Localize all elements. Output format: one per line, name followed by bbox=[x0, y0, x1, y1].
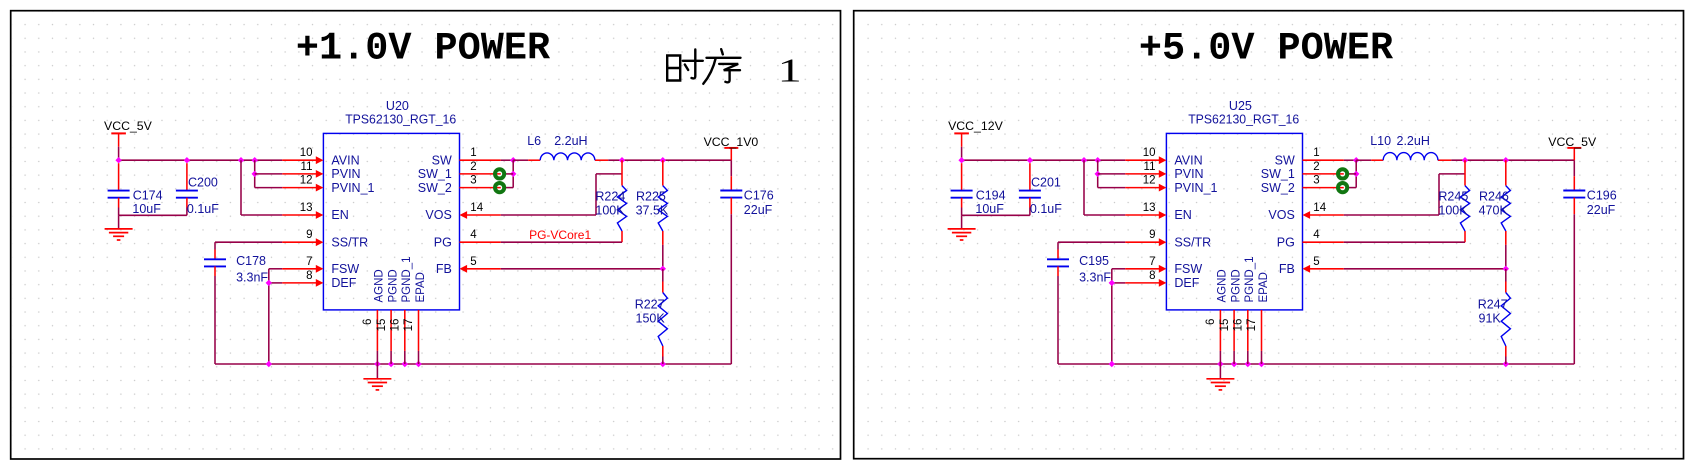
capacitor C194 10uF bbox=[961, 163, 963, 190]
junction bbox=[1353, 157, 1359, 163]
svg-text:16: 16 bbox=[1233, 319, 1245, 332]
svg-text:22uF: 22uF bbox=[1587, 203, 1616, 217]
svg-text:VOS: VOS bbox=[1268, 208, 1294, 222]
wire bbox=[118, 147, 120, 160]
junction bbox=[1095, 157, 1101, 163]
svg-text:8: 8 bbox=[306, 270, 312, 282]
short-to-net symbol (green rings) on SW_1 bbox=[495, 169, 504, 178]
resistor R247 91K pins bbox=[1505, 269, 1507, 364]
wire bbox=[269, 282, 283, 284]
svg-text:12: 12 bbox=[300, 175, 313, 187]
pin 15 PGND bbox=[390, 310, 392, 364]
wire bbox=[608, 159, 731, 161]
svg-text:1: 1 bbox=[470, 147, 476, 159]
svg-text:7: 7 bbox=[306, 256, 312, 268]
svg-text:SW_2: SW_2 bbox=[1261, 181, 1295, 195]
svg-text:100K: 100K bbox=[1438, 203, 1468, 217]
svg-text:C200: C200 bbox=[188, 176, 218, 190]
junction bbox=[238, 157, 244, 163]
svg-text:10uF: 10uF bbox=[132, 202, 161, 216]
resistor R227 150K pins bbox=[662, 269, 664, 364]
svg-text:+1.0V POWER: +1.0V POWER bbox=[296, 27, 551, 71]
svg-text:2: 2 bbox=[470, 161, 476, 173]
resistor R246 470K pins bbox=[1505, 160, 1507, 269]
junction bbox=[619, 157, 625, 163]
svg-text:SW_1: SW_1 bbox=[418, 167, 452, 181]
resistor R225 37.5K pins bbox=[662, 160, 664, 269]
svg-text:AGND: AGND bbox=[1217, 269, 1229, 302]
pin 5 FB bbox=[460, 265, 501, 273]
svg-text:R247: R247 bbox=[1478, 298, 1508, 312]
capacitor C200 plates bbox=[176, 191, 198, 198]
junction bbox=[115, 157, 121, 163]
pin 13 EN bbox=[1125, 211, 1166, 219]
wire bbox=[118, 215, 120, 228]
svg-text:4: 4 bbox=[470, 229, 477, 241]
svg-text:PGND: PGND bbox=[1230, 269, 1242, 302]
wire bbox=[1111, 269, 1113, 364]
capacitor C176 22uF bbox=[730, 176, 732, 190]
svg-text:7: 7 bbox=[1149, 256, 1155, 268]
svg-text:1: 1 bbox=[778, 52, 802, 89]
capacitor C178 3.3nF bbox=[214, 242, 216, 249]
wire bbox=[1451, 159, 1574, 161]
svg-text:SW: SW bbox=[1275, 153, 1295, 167]
svg-text:11: 11 bbox=[301, 161, 313, 173]
svg-text:U25: U25 bbox=[1229, 99, 1252, 113]
junction bbox=[660, 266, 666, 272]
pin 14 VOS bbox=[1303, 211, 1344, 219]
wire bbox=[513, 159, 528, 161]
svg-text:15: 15 bbox=[1219, 319, 1231, 332]
wire bbox=[1058, 241, 1125, 243]
wire bbox=[961, 215, 963, 228]
junction bbox=[1462, 157, 1468, 163]
pin 13 EN bbox=[282, 211, 323, 219]
junction bbox=[1027, 157, 1033, 163]
svg-text:+5.0V POWER: +5.0V POWER bbox=[1139, 27, 1394, 71]
capacitor C196 plates bbox=[1563, 191, 1585, 198]
wire bbox=[501, 214, 596, 216]
wire bbox=[961, 147, 963, 160]
svg-text:14: 14 bbox=[1313, 202, 1326, 214]
resistor R224 100K pins bbox=[621, 160, 623, 242]
wire bbox=[1438, 174, 1440, 215]
junction bbox=[1245, 361, 1251, 367]
svg-text:C195: C195 bbox=[1079, 254, 1109, 268]
wire bbox=[118, 198, 120, 208]
op-amp U20 TPS62130_RGT_16 body bbox=[323, 133, 459, 310]
svg-text:PVIN: PVIN bbox=[1174, 167, 1203, 181]
junction bbox=[415, 361, 421, 367]
svg-text:C201: C201 bbox=[1031, 176, 1061, 190]
junction bbox=[1081, 157, 1087, 163]
junction bbox=[266, 280, 272, 286]
sheet frame (right page) bbox=[854, 11, 1684, 459]
svg-text:4: 4 bbox=[1313, 229, 1320, 241]
junction bbox=[252, 157, 258, 163]
svg-text:VCC_1V0: VCC_1V0 bbox=[704, 135, 759, 149]
svg-text:22uF: 22uF bbox=[744, 203, 773, 217]
svg-text:DEF: DEF bbox=[1174, 276, 1199, 290]
pin 1 SW bbox=[460, 159, 501, 161]
svg-text:0.1uF: 0.1uF bbox=[187, 202, 219, 216]
svg-text:EPAD: EPAD bbox=[415, 272, 427, 302]
svg-text:12: 12 bbox=[1143, 175, 1156, 187]
svg-text:3: 3 bbox=[1313, 175, 1319, 187]
pin 7 FSW bbox=[282, 265, 323, 273]
svg-text:AGND: AGND bbox=[374, 269, 386, 302]
resistor R225 body bbox=[658, 186, 667, 231]
svg-text:2.2uH: 2.2uH bbox=[1397, 134, 1430, 148]
junction bbox=[1258, 361, 1264, 367]
capacitor C195 plates bbox=[1047, 259, 1069, 266]
junction bbox=[958, 157, 964, 163]
svg-text:FB: FB bbox=[1279, 262, 1295, 276]
svg-text:VCC_5V: VCC_5V bbox=[1548, 135, 1597, 149]
pin 2 SW_1 bbox=[1303, 173, 1344, 175]
wire bbox=[1344, 159, 1356, 161]
wire bbox=[596, 173, 622, 175]
pin 9 SS/TR bbox=[282, 238, 323, 246]
wire bbox=[119, 214, 187, 216]
junction bbox=[1095, 171, 1101, 177]
wire bbox=[1029, 198, 1031, 208]
pin 14 VOS bbox=[460, 211, 501, 219]
capacitor C178 plates bbox=[204, 259, 226, 266]
svg-text:SS/TR: SS/TR bbox=[331, 235, 368, 249]
capacitor C174 plates bbox=[108, 191, 130, 198]
svg-text:470K: 470K bbox=[1479, 203, 1509, 217]
pin 3 SW_2 bbox=[460, 187, 501, 189]
wire bbox=[1355, 160, 1357, 187]
svg-text:FSW: FSW bbox=[331, 262, 359, 276]
svg-text:TPS62130_RGT_16: TPS62130_RGT_16 bbox=[345, 113, 456, 127]
junction bbox=[510, 157, 516, 163]
capacitor C201 plates bbox=[1019, 191, 1041, 198]
capacitor C195 3.3nF bbox=[1057, 242, 1059, 249]
svg-text:PVIN_1: PVIN_1 bbox=[331, 181, 374, 195]
junction bbox=[1503, 266, 1509, 272]
wire bbox=[1112, 268, 1126, 270]
svg-text:VCC_12V: VCC_12V bbox=[948, 119, 1003, 133]
power symbol VCC_5V bbox=[1567, 147, 1581, 149]
pin 16 PGND_1 bbox=[1247, 310, 1249, 364]
junction bbox=[1217, 361, 1223, 367]
junction bbox=[374, 361, 380, 367]
svg-text:SW_2: SW_2 bbox=[418, 181, 452, 195]
svg-text:EN: EN bbox=[331, 208, 348, 222]
capacitor C176 plates bbox=[720, 191, 742, 198]
wire bbox=[268, 269, 270, 364]
wire bbox=[512, 160, 514, 187]
svg-text:PGND: PGND bbox=[387, 269, 399, 302]
resistor R245 body bbox=[1460, 186, 1469, 231]
svg-text:9: 9 bbox=[1149, 229, 1155, 241]
inductor L6 body bbox=[540, 153, 595, 160]
svg-text:3: 3 bbox=[470, 175, 476, 187]
junction bbox=[1231, 361, 1237, 367]
svg-text:1: 1 bbox=[1313, 147, 1319, 159]
wire bbox=[1344, 214, 1439, 216]
wire bbox=[240, 160, 242, 215]
inductor L6 2.2uH pins bbox=[528, 159, 608, 161]
ground bbox=[105, 229, 133, 240]
svg-text:8: 8 bbox=[1149, 270, 1155, 282]
wire bbox=[1097, 160, 1099, 187]
pin 10 AVIN bbox=[282, 156, 323, 164]
wire bbox=[501, 159, 513, 161]
junction bbox=[1353, 171, 1359, 177]
wire bbox=[376, 364, 378, 379]
pin 4 PG bbox=[1303, 241, 1344, 243]
svg-text:150K: 150K bbox=[636, 311, 666, 325]
wire bbox=[1058, 363, 1574, 365]
svg-text:EN: EN bbox=[1174, 208, 1191, 222]
wire bbox=[269, 268, 283, 270]
svg-text:PG-VCore1: PG-VCore1 bbox=[529, 228, 591, 242]
pin 11 PVIN bbox=[1125, 170, 1166, 178]
resistor R224 body bbox=[617, 186, 626, 231]
ground bbox=[948, 229, 976, 240]
svg-text:PGND_1: PGND_1 bbox=[1244, 256, 1256, 302]
wire bbox=[1344, 268, 1506, 270]
wire bbox=[1573, 160, 1575, 176]
svg-text:R224: R224 bbox=[595, 189, 625, 203]
wire bbox=[255, 173, 283, 175]
svg-text:TPS62130_RGT_16: TPS62130_RGT_16 bbox=[1188, 113, 1299, 127]
pin 4 PG bbox=[460, 241, 501, 243]
svg-text:PG: PG bbox=[1277, 235, 1295, 249]
svg-text:37.5K: 37.5K bbox=[636, 203, 669, 217]
wire bbox=[961, 198, 963, 208]
resistor R227 body bbox=[658, 293, 667, 347]
junction bbox=[1503, 361, 1509, 367]
svg-text:R246: R246 bbox=[1479, 189, 1509, 203]
svg-text:13: 13 bbox=[300, 202, 313, 214]
wire bbox=[730, 160, 732, 176]
svg-text:DEF: DEF bbox=[331, 276, 356, 290]
svg-text:R225: R225 bbox=[636, 189, 666, 203]
svg-text:FSW: FSW bbox=[1174, 262, 1202, 276]
wire bbox=[119, 159, 283, 161]
wire bbox=[1344, 241, 1465, 243]
svg-text:11: 11 bbox=[1144, 161, 1156, 173]
svg-text:3.3nF: 3.3nF bbox=[236, 270, 268, 284]
svg-text:100K: 100K bbox=[595, 203, 625, 217]
pin 17 EPAD bbox=[418, 310, 420, 364]
inductor L10 body bbox=[1383, 153, 1438, 161]
power symbol VCC_1V0 bbox=[724, 147, 738, 149]
svg-text:EPAD: EPAD bbox=[1258, 272, 1270, 302]
svg-text:FB: FB bbox=[436, 262, 452, 276]
pin 17 EPAD bbox=[1261, 310, 1263, 364]
wire bbox=[1347, 173, 1357, 175]
svg-text:C194: C194 bbox=[976, 189, 1006, 203]
svg-text:13: 13 bbox=[1143, 202, 1156, 214]
wire bbox=[255, 187, 283, 189]
wire bbox=[1573, 198, 1575, 215]
wire bbox=[962, 159, 1126, 161]
svg-text:14: 14 bbox=[470, 202, 483, 214]
svg-text:PG: PG bbox=[434, 235, 452, 249]
svg-text:17: 17 bbox=[403, 319, 415, 332]
pin 5 FB bbox=[1303, 265, 1344, 273]
short-to-net symbol (green rings) on SW_2 bbox=[1338, 183, 1347, 192]
svg-text:PGND_1: PGND_1 bbox=[401, 256, 413, 302]
junction bbox=[660, 157, 666, 163]
wire bbox=[504, 173, 514, 175]
svg-text:L6: L6 bbox=[527, 134, 541, 148]
svg-text:17: 17 bbox=[1246, 319, 1258, 332]
pin 12 PVIN_1 bbox=[1125, 184, 1166, 192]
junction bbox=[1109, 361, 1115, 367]
junction bbox=[252, 171, 258, 177]
junction bbox=[1109, 280, 1115, 286]
wire bbox=[1057, 266, 1059, 276]
wire bbox=[214, 266, 216, 276]
wire bbox=[1347, 187, 1357, 189]
wire bbox=[730, 148, 732, 160]
svg-text:AVIN: AVIN bbox=[1174, 153, 1202, 167]
junction bbox=[402, 361, 408, 367]
wire bbox=[1098, 173, 1126, 175]
junction bbox=[266, 361, 272, 367]
short-to-net symbol (green rings) on SW_2 bbox=[495, 183, 504, 192]
svg-text:SW_1: SW_1 bbox=[1261, 167, 1295, 181]
pin 16 PGND_1 bbox=[404, 310, 406, 364]
pin 9 SS/TR bbox=[1125, 238, 1166, 246]
svg-text:VOS: VOS bbox=[425, 208, 451, 222]
svg-text:SS/TR: SS/TR bbox=[1174, 235, 1211, 249]
wire bbox=[215, 363, 731, 365]
wire bbox=[1084, 214, 1125, 216]
ground bbox=[1206, 379, 1234, 390]
pin 10 AVIN bbox=[1125, 156, 1166, 164]
svg-text:C176: C176 bbox=[744, 188, 774, 202]
svg-text:U20: U20 bbox=[386, 99, 409, 113]
junction bbox=[660, 361, 666, 367]
svg-text:6: 6 bbox=[362, 319, 374, 325]
svg-text:VCC_5V: VCC_5V bbox=[104, 119, 153, 133]
svg-text:10uF: 10uF bbox=[975, 202, 1004, 216]
svg-text:PVIN: PVIN bbox=[331, 167, 360, 181]
pin 12 PVIN_1 bbox=[282, 184, 323, 192]
svg-text:R245: R245 bbox=[1438, 189, 1468, 203]
svg-text:15: 15 bbox=[376, 319, 388, 332]
resistor R247 body bbox=[1501, 293, 1510, 347]
wire bbox=[1219, 364, 1221, 379]
wire bbox=[501, 241, 622, 243]
svg-text:PVIN_1: PVIN_1 bbox=[1174, 181, 1217, 195]
wire bbox=[962, 214, 1030, 216]
svg-text:10: 10 bbox=[1143, 147, 1156, 159]
wire bbox=[1356, 159, 1371, 161]
short-to-net symbol (green rings) on SW_1 bbox=[1338, 169, 1347, 178]
svg-text:3.3nF: 3.3nF bbox=[1079, 270, 1111, 284]
junction bbox=[388, 361, 394, 367]
svg-text:SW: SW bbox=[432, 153, 452, 167]
svg-text:2: 2 bbox=[1313, 161, 1319, 173]
junction bbox=[184, 157, 190, 163]
wire bbox=[595, 174, 597, 215]
svg-text:16: 16 bbox=[390, 319, 402, 332]
svg-text:L10: L10 bbox=[1370, 134, 1391, 148]
annotation text 1 bbox=[778, 52, 802, 89]
pin 6 AGND bbox=[1219, 310, 1221, 364]
inductor L10 2.2uH pins bbox=[1371, 159, 1451, 161]
pin 11 PVIN bbox=[282, 170, 323, 178]
svg-text:C196: C196 bbox=[1587, 188, 1617, 202]
op-amp U25 TPS62130_RGT_16 body bbox=[1166, 133, 1302, 310]
pin 1 SW bbox=[1303, 159, 1344, 161]
wire bbox=[215, 241, 282, 243]
svg-text:5: 5 bbox=[1313, 256, 1319, 268]
wire bbox=[241, 214, 282, 216]
pin 7 FSW bbox=[1125, 265, 1166, 273]
pin 6 AGND bbox=[376, 310, 378, 364]
pin 8 DEF bbox=[1125, 279, 1166, 287]
wire bbox=[1083, 160, 1085, 215]
capacitor C200 0.1uF bbox=[186, 163, 188, 190]
wire bbox=[1573, 148, 1575, 160]
pin 8 DEF bbox=[282, 279, 323, 287]
svg-text:C178: C178 bbox=[236, 254, 266, 268]
ground bbox=[363, 379, 391, 390]
svg-text:0.1uF: 0.1uF bbox=[1030, 202, 1062, 216]
svg-text:5: 5 bbox=[470, 256, 476, 268]
wire bbox=[1439, 173, 1465, 175]
svg-text:2.2uH: 2.2uH bbox=[554, 134, 587, 148]
resistor R245 100K pins bbox=[1464, 160, 1466, 242]
capacitor C196 22uF bbox=[1573, 176, 1575, 190]
svg-text:91K: 91K bbox=[1479, 311, 1502, 325]
sheet frame (left page) bbox=[11, 11, 841, 459]
annotation text 时序 (drawn strokes) bbox=[667, 49, 740, 84]
capacitor C174 10uF bbox=[118, 163, 120, 190]
svg-text:10: 10 bbox=[300, 147, 313, 159]
capacitor C201 0.1uF bbox=[1029, 163, 1031, 190]
pin 2 SW_1 bbox=[460, 173, 501, 175]
junction bbox=[510, 171, 516, 177]
junction bbox=[1503, 157, 1509, 163]
pin 15 PGND bbox=[1233, 310, 1235, 364]
svg-text:R227: R227 bbox=[635, 298, 665, 312]
pin 3 SW_2 bbox=[1303, 187, 1344, 189]
svg-text:C174: C174 bbox=[133, 189, 163, 203]
wire bbox=[501, 268, 663, 270]
svg-text:6: 6 bbox=[1205, 319, 1217, 325]
wire bbox=[186, 198, 188, 208]
wire bbox=[504, 187, 514, 189]
wire bbox=[254, 160, 256, 187]
capacitor C194 plates bbox=[951, 191, 973, 198]
svg-text:9: 9 bbox=[306, 229, 312, 241]
resistor R246 body bbox=[1501, 186, 1510, 231]
svg-text:AVIN: AVIN bbox=[331, 153, 359, 167]
power symbol VCC_5V bbox=[111, 133, 126, 146]
power symbol VCC_12V bbox=[954, 133, 969, 146]
wire bbox=[1098, 187, 1126, 189]
wire bbox=[1112, 282, 1126, 284]
wire bbox=[730, 198, 732, 215]
